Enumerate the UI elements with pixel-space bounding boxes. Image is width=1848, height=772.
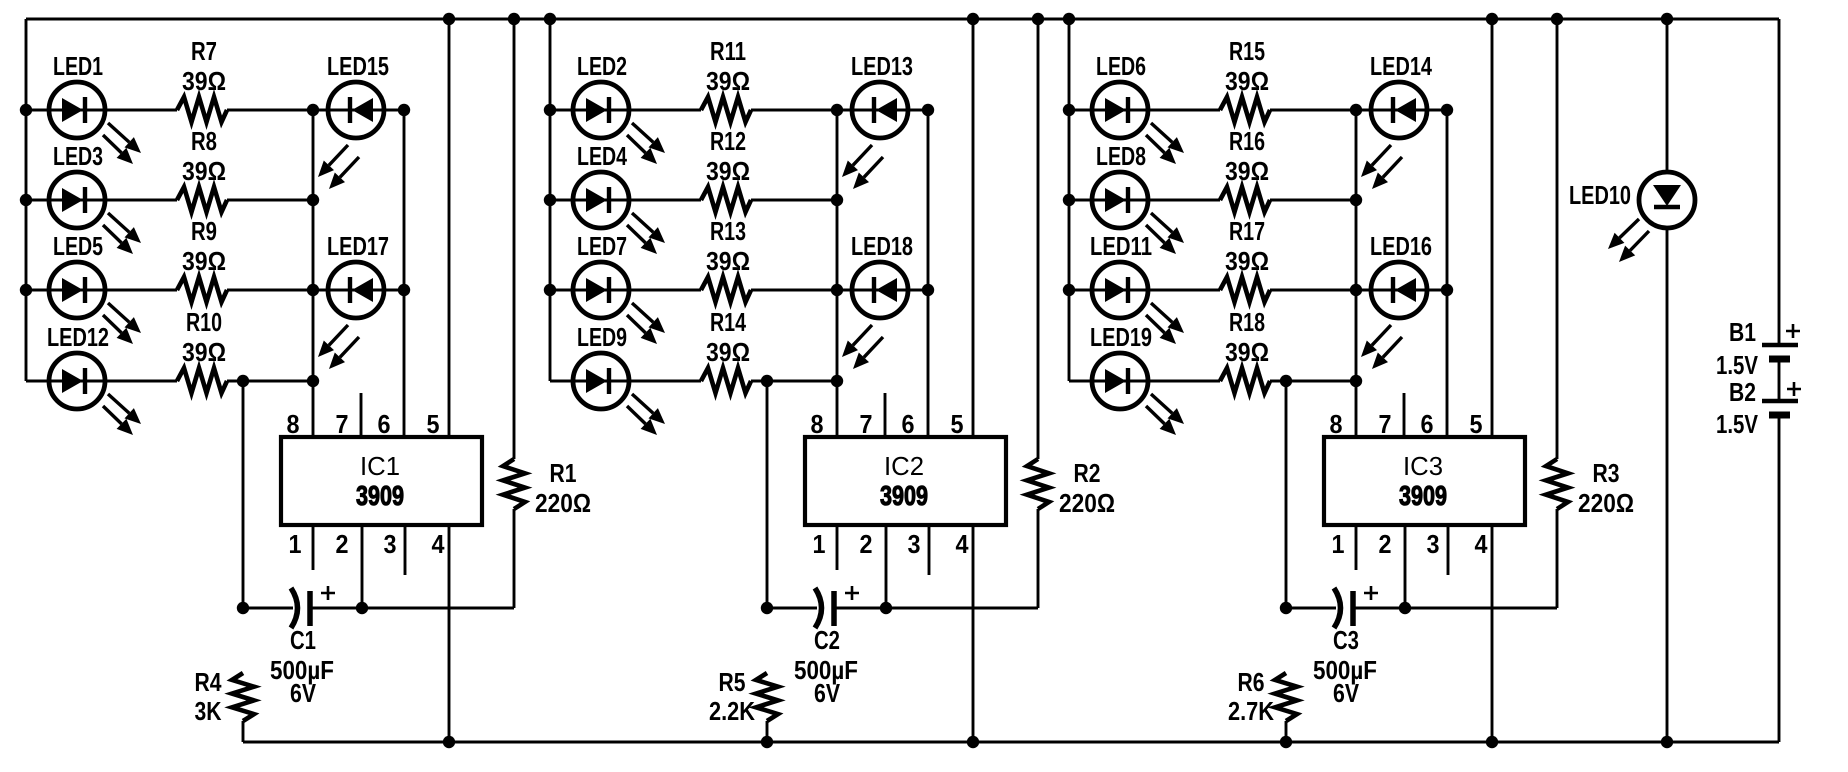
svg-text:R3: R3 bbox=[1593, 458, 1620, 488]
svg-text:8: 8 bbox=[811, 409, 824, 439]
svg-text:39Ω: 39Ω bbox=[706, 66, 750, 96]
svg-text:39Ω: 39Ω bbox=[706, 337, 750, 367]
LED LED6 bbox=[1092, 51, 1184, 164]
pin 5 supply line IC2 bbox=[967, 13, 979, 437]
node row 1 to pin-8 column block 2 bbox=[831, 104, 843, 116]
resistor R7 39ohm bbox=[177, 36, 227, 122]
svg-text:R14: R14 bbox=[710, 307, 746, 337]
svg-text:LED17: LED17 bbox=[327, 231, 389, 261]
wire capacitor node block 2 bbox=[767, 607, 1038, 610]
battery B1 1.5V bbox=[1716, 317, 1800, 380]
wire row 2 block 3 bbox=[1069, 199, 1356, 202]
pin numbers bottom IC2 bbox=[813, 529, 969, 559]
wire row 3 block 2 bbox=[550, 289, 928, 292]
capacitor C2 500uF bbox=[794, 586, 859, 708]
node left bus junction on top rail block 3 bbox=[1063, 13, 1075, 25]
svg-text:5: 5 bbox=[1470, 409, 1483, 439]
pin numbers bottom IC3 bbox=[1332, 529, 1488, 559]
pin 5 supply line IC1 bbox=[443, 13, 455, 437]
LED LED14 bbox=[1361, 51, 1432, 189]
capacitor C1 500uF bbox=[270, 586, 335, 708]
svg-text:LED15: LED15 bbox=[327, 51, 389, 81]
LED LED19 bbox=[1090, 322, 1184, 435]
node left bus row 2 block 2 bbox=[544, 194, 556, 206]
LED LED8 bbox=[1092, 141, 1184, 254]
svg-text:R16: R16 bbox=[1229, 126, 1265, 156]
resistor R3 220ohm bbox=[1546, 13, 1634, 608]
node row 1 to pin-8 column block 1 bbox=[307, 104, 319, 116]
LED LED4 bbox=[573, 141, 665, 254]
resistor R9 39ohm bbox=[177, 216, 227, 302]
svg-text:R18: R18 bbox=[1229, 307, 1265, 337]
svg-text:LED10: LED10 bbox=[1569, 180, 1631, 210]
svg-text:LED18: LED18 bbox=[851, 231, 913, 261]
svg-text:3909: 3909 bbox=[356, 480, 404, 511]
wire LED10 branch bbox=[1661, 13, 1673, 748]
node row 2 to pin-8 column block 3 bbox=[1350, 194, 1362, 206]
svg-text:R13: R13 bbox=[710, 216, 746, 246]
resistor R12 39ohm bbox=[701, 126, 751, 212]
wire row 1 block 2 bbox=[550, 109, 928, 112]
pin 3 stub IC2 bbox=[928, 525, 931, 575]
node row 4 to pin-8 column block 1 bbox=[307, 375, 319, 387]
svg-text:1: 1 bbox=[289, 529, 302, 559]
pin 4 ground line IC3 bbox=[1486, 525, 1498, 748]
wire right LED cathode bus to pin 6 block 2 bbox=[922, 104, 934, 437]
svg-text:2: 2 bbox=[336, 529, 349, 559]
battery B2 1.5V bbox=[1716, 377, 1801, 439]
svg-text:3909: 3909 bbox=[1399, 480, 1447, 511]
svg-text:B2: B2 bbox=[1729, 377, 1756, 407]
resistor R14 39ohm bbox=[701, 307, 751, 393]
svg-text:LED8: LED8 bbox=[1096, 141, 1146, 171]
wire left anode bus block 2 bbox=[549, 19, 552, 381]
pin numbers top IC2 bbox=[811, 409, 964, 439]
wire battery branch bbox=[1778, 19, 1781, 742]
svg-text:1.5V: 1.5V bbox=[1716, 409, 1759, 439]
svg-text:1: 1 bbox=[1332, 529, 1345, 559]
node row 4 to pin-8 column block 3 bbox=[1350, 375, 1362, 387]
svg-text:B1: B1 bbox=[1729, 317, 1756, 347]
svg-text:2.2K: 2.2K bbox=[709, 696, 755, 726]
pin 1 stub IC2 bbox=[836, 525, 839, 570]
pin numbers bottom IC1 bbox=[289, 529, 445, 559]
svg-text:39Ω: 39Ω bbox=[1225, 156, 1269, 186]
wire left anode bus block 3 bbox=[1068, 19, 1071, 381]
svg-text:4: 4 bbox=[1475, 529, 1488, 559]
pin 2 line IC1 bbox=[356, 525, 368, 614]
wire row 1 block 1 bbox=[26, 109, 404, 112]
svg-text:6: 6 bbox=[1421, 409, 1434, 439]
svg-text:R17: R17 bbox=[1229, 216, 1265, 246]
capacitor C3 500uF bbox=[1313, 586, 1378, 708]
svg-text:3: 3 bbox=[384, 529, 397, 559]
wire row 2 block 1 bbox=[26, 199, 313, 202]
node left bus row 2 block 3 bbox=[1063, 194, 1075, 206]
svg-text:8: 8 bbox=[1330, 409, 1343, 439]
svg-text:C1: C1 bbox=[290, 625, 316, 655]
LED LED3 bbox=[49, 141, 141, 254]
wire row 2 block 2 bbox=[550, 199, 837, 202]
op-amp IC3 LM3909 bbox=[1324, 437, 1525, 525]
svg-text:1: 1 bbox=[813, 529, 826, 559]
svg-text:3909: 3909 bbox=[880, 480, 928, 511]
pin 2 line IC3 bbox=[1399, 525, 1411, 614]
node left bus junction on top rail block 2 bbox=[544, 13, 556, 25]
op-amp IC1 LM3909 bbox=[281, 437, 482, 525]
svg-text:4: 4 bbox=[956, 529, 969, 559]
LED LED9 bbox=[573, 322, 665, 435]
node left bus row 2 block 1 bbox=[20, 194, 32, 206]
svg-text:R12: R12 bbox=[710, 126, 746, 156]
wire right LED cathode bus to pin 6 block 1 bbox=[398, 104, 410, 437]
node row 1 to pin-8 column block 3 bbox=[1350, 104, 1362, 116]
svg-text:R4: R4 bbox=[195, 667, 222, 697]
wire top supply rail bbox=[26, 18, 1779, 21]
node R5 on ground rail bbox=[761, 736, 773, 748]
svg-text:LED3: LED3 bbox=[53, 141, 103, 171]
resistor R1 220ohm bbox=[503, 13, 591, 608]
svg-text:LED12: LED12 bbox=[47, 322, 109, 352]
resistor R10 39ohm bbox=[177, 307, 227, 393]
svg-text:R2: R2 bbox=[1074, 458, 1101, 488]
svg-text:220Ω: 220Ω bbox=[1578, 488, 1634, 518]
wire row 3 block 1 bbox=[26, 289, 404, 292]
svg-text:39Ω: 39Ω bbox=[706, 246, 750, 276]
node R6 on ground rail bbox=[1280, 736, 1292, 748]
wire junction column to IC pin 8 block 3 bbox=[1355, 110, 1358, 437]
wire junction column to IC pin 8 block 1 bbox=[312, 110, 315, 437]
svg-text:1.5V: 1.5V bbox=[1716, 350, 1759, 380]
wire capacitor node block 1 bbox=[243, 607, 514, 610]
svg-text:39Ω: 39Ω bbox=[1225, 246, 1269, 276]
svg-text:LED7: LED7 bbox=[577, 231, 627, 261]
svg-text:6V: 6V bbox=[1333, 678, 1360, 708]
svg-text:39Ω: 39Ω bbox=[1225, 337, 1269, 367]
svg-text:R5: R5 bbox=[719, 667, 746, 697]
node left bus row 1 block 3 bbox=[1063, 104, 1075, 116]
svg-text:R6: R6 bbox=[1238, 667, 1265, 697]
svg-text:LED6: LED6 bbox=[1096, 51, 1146, 81]
svg-text:R7: R7 bbox=[191, 36, 217, 66]
resistor R15 39ohm bbox=[1220, 36, 1270, 122]
wire row 4 block 3 bbox=[1069, 380, 1356, 383]
svg-text:39Ω: 39Ω bbox=[1225, 66, 1269, 96]
svg-text:LED1: LED1 bbox=[53, 51, 103, 81]
svg-text:IC3: IC3 bbox=[1403, 451, 1443, 481]
LED LED5 bbox=[49, 231, 141, 344]
wire row 4 tap to capacitor node block 2 bbox=[761, 375, 773, 614]
svg-text:LED5: LED5 bbox=[53, 231, 103, 261]
svg-text:LED13: LED13 bbox=[851, 51, 913, 81]
LED LED12 bbox=[47, 322, 141, 435]
svg-text:6V: 6V bbox=[290, 678, 317, 708]
svg-text:LED4: LED4 bbox=[577, 141, 627, 171]
svg-text:LED16: LED16 bbox=[1370, 231, 1432, 261]
resistor R16 39ohm bbox=[1220, 126, 1270, 212]
LED LED15 bbox=[318, 51, 389, 189]
pin 4 ground line IC1 bbox=[443, 525, 455, 748]
svg-text:LED11: LED11 bbox=[1090, 231, 1152, 261]
LED LED11 bbox=[1090, 231, 1184, 344]
pin 2 line IC2 bbox=[880, 525, 892, 614]
svg-text:R10: R10 bbox=[186, 307, 222, 337]
node row 3 to pin-8 column block 3 bbox=[1350, 284, 1362, 296]
svg-text:6V: 6V bbox=[814, 678, 841, 708]
svg-text:220Ω: 220Ω bbox=[535, 488, 591, 518]
node left bus row 3 block 2 bbox=[544, 284, 556, 296]
LED LED13 bbox=[842, 51, 913, 189]
svg-text:IC1: IC1 bbox=[360, 451, 400, 481]
LED LED2 bbox=[573, 51, 665, 164]
wire row 4 tap to capacitor node block 1 bbox=[237, 375, 249, 614]
svg-text:6: 6 bbox=[378, 409, 391, 439]
svg-text:39Ω: 39Ω bbox=[182, 337, 226, 367]
pin 5 supply line IC3 bbox=[1486, 13, 1498, 437]
wire row 4 block 1 bbox=[26, 380, 313, 383]
resistor R8 39ohm bbox=[177, 126, 227, 212]
svg-text:8: 8 bbox=[287, 409, 300, 439]
svg-text:R9: R9 bbox=[191, 216, 217, 246]
wire right LED cathode bus to pin 6 block 3 bbox=[1441, 104, 1453, 437]
svg-text:39Ω: 39Ω bbox=[182, 246, 226, 276]
op-amp IC2 LM3909 bbox=[805, 437, 1006, 525]
wire left anode bus block 1 bbox=[25, 19, 28, 381]
pin 1 stub IC3 bbox=[1355, 525, 1358, 570]
pin 7 stub IC2 bbox=[884, 393, 887, 437]
svg-text:3: 3 bbox=[908, 529, 921, 559]
wire row 1 block 3 bbox=[1069, 109, 1447, 112]
svg-text:2.7K: 2.7K bbox=[1228, 696, 1274, 726]
LED LED18 bbox=[842, 231, 913, 369]
node left bus row 1 block 1 bbox=[20, 104, 32, 116]
svg-text:220Ω: 220Ω bbox=[1059, 488, 1115, 518]
svg-text:7: 7 bbox=[860, 409, 873, 439]
node row 2 to pin-8 column block 1 bbox=[307, 194, 319, 206]
resistor R5 2.2K bbox=[709, 667, 778, 742]
svg-text:5: 5 bbox=[427, 409, 440, 439]
node left bus row 1 block 2 bbox=[544, 104, 556, 116]
svg-text:LED19: LED19 bbox=[1090, 322, 1152, 352]
wire junction column to IC pin 8 block 2 bbox=[836, 110, 839, 437]
svg-text:39Ω: 39Ω bbox=[182, 156, 226, 186]
LED LED10 bbox=[1569, 172, 1695, 262]
svg-text:7: 7 bbox=[1379, 409, 1392, 439]
wire capacitor node block 3 bbox=[1286, 607, 1557, 610]
svg-text:7: 7 bbox=[336, 409, 349, 439]
resistor R6 2.7K bbox=[1228, 667, 1297, 742]
resistor R17 39ohm bbox=[1220, 216, 1270, 302]
svg-text:LED2: LED2 bbox=[577, 51, 627, 81]
wire row 3 block 3 bbox=[1069, 289, 1447, 292]
svg-text:R1: R1 bbox=[550, 458, 577, 488]
resistor R2 220ohm bbox=[1027, 13, 1115, 608]
node left bus row 3 block 3 bbox=[1063, 284, 1075, 296]
svg-text:R8: R8 bbox=[191, 126, 217, 156]
wire row 4 tap to capacitor node block 3 bbox=[1280, 375, 1292, 614]
svg-text:IC2: IC2 bbox=[884, 451, 924, 481]
LED LED7 bbox=[573, 231, 665, 344]
LED LED1 bbox=[49, 51, 141, 164]
svg-text:C2: C2 bbox=[814, 625, 840, 655]
svg-text:4: 4 bbox=[432, 529, 445, 559]
pin numbers top IC3 bbox=[1330, 409, 1483, 439]
svg-text:C3: C3 bbox=[1333, 625, 1359, 655]
wire bottom ground rail bbox=[243, 741, 1779, 744]
LED LED16 bbox=[1361, 231, 1432, 369]
svg-text:LED14: LED14 bbox=[1370, 51, 1432, 81]
svg-text:R15: R15 bbox=[1229, 36, 1265, 66]
pin numbers top IC1 bbox=[287, 409, 440, 439]
wire row 4 block 2 bbox=[550, 380, 837, 383]
svg-text:6: 6 bbox=[902, 409, 915, 439]
node row 3 to pin-8 column block 2 bbox=[831, 284, 843, 296]
svg-text:3K: 3K bbox=[195, 696, 222, 726]
svg-text:2: 2 bbox=[860, 529, 873, 559]
svg-text:39Ω: 39Ω bbox=[182, 66, 226, 96]
pin 4 ground line IC2 bbox=[967, 525, 979, 748]
pin 1 stub IC1 bbox=[312, 525, 315, 570]
node left bus row 3 block 1 bbox=[20, 284, 32, 296]
svg-text:R11: R11 bbox=[710, 36, 746, 66]
pin 3 stub IC3 bbox=[1447, 525, 1450, 575]
svg-text:LED9: LED9 bbox=[577, 322, 627, 352]
resistor R4 3K bbox=[195, 667, 255, 742]
resistor R18 39ohm bbox=[1220, 307, 1270, 393]
pin 7 stub IC3 bbox=[1403, 393, 1406, 437]
svg-text:3: 3 bbox=[1427, 529, 1440, 559]
LED LED17 bbox=[318, 231, 389, 369]
resistor R11 39ohm bbox=[701, 36, 751, 122]
resistor R13 39ohm bbox=[701, 216, 751, 302]
node row 4 to pin-8 column block 2 bbox=[831, 375, 843, 387]
node row 2 to pin-8 column block 2 bbox=[831, 194, 843, 206]
node row 3 to pin-8 column block 1 bbox=[307, 284, 319, 296]
svg-text:2: 2 bbox=[1379, 529, 1392, 559]
svg-text:39Ω: 39Ω bbox=[706, 156, 750, 186]
svg-text:5: 5 bbox=[951, 409, 964, 439]
pin 7 stub IC1 bbox=[360, 393, 363, 437]
pin 3 stub IC1 bbox=[404, 525, 407, 575]
